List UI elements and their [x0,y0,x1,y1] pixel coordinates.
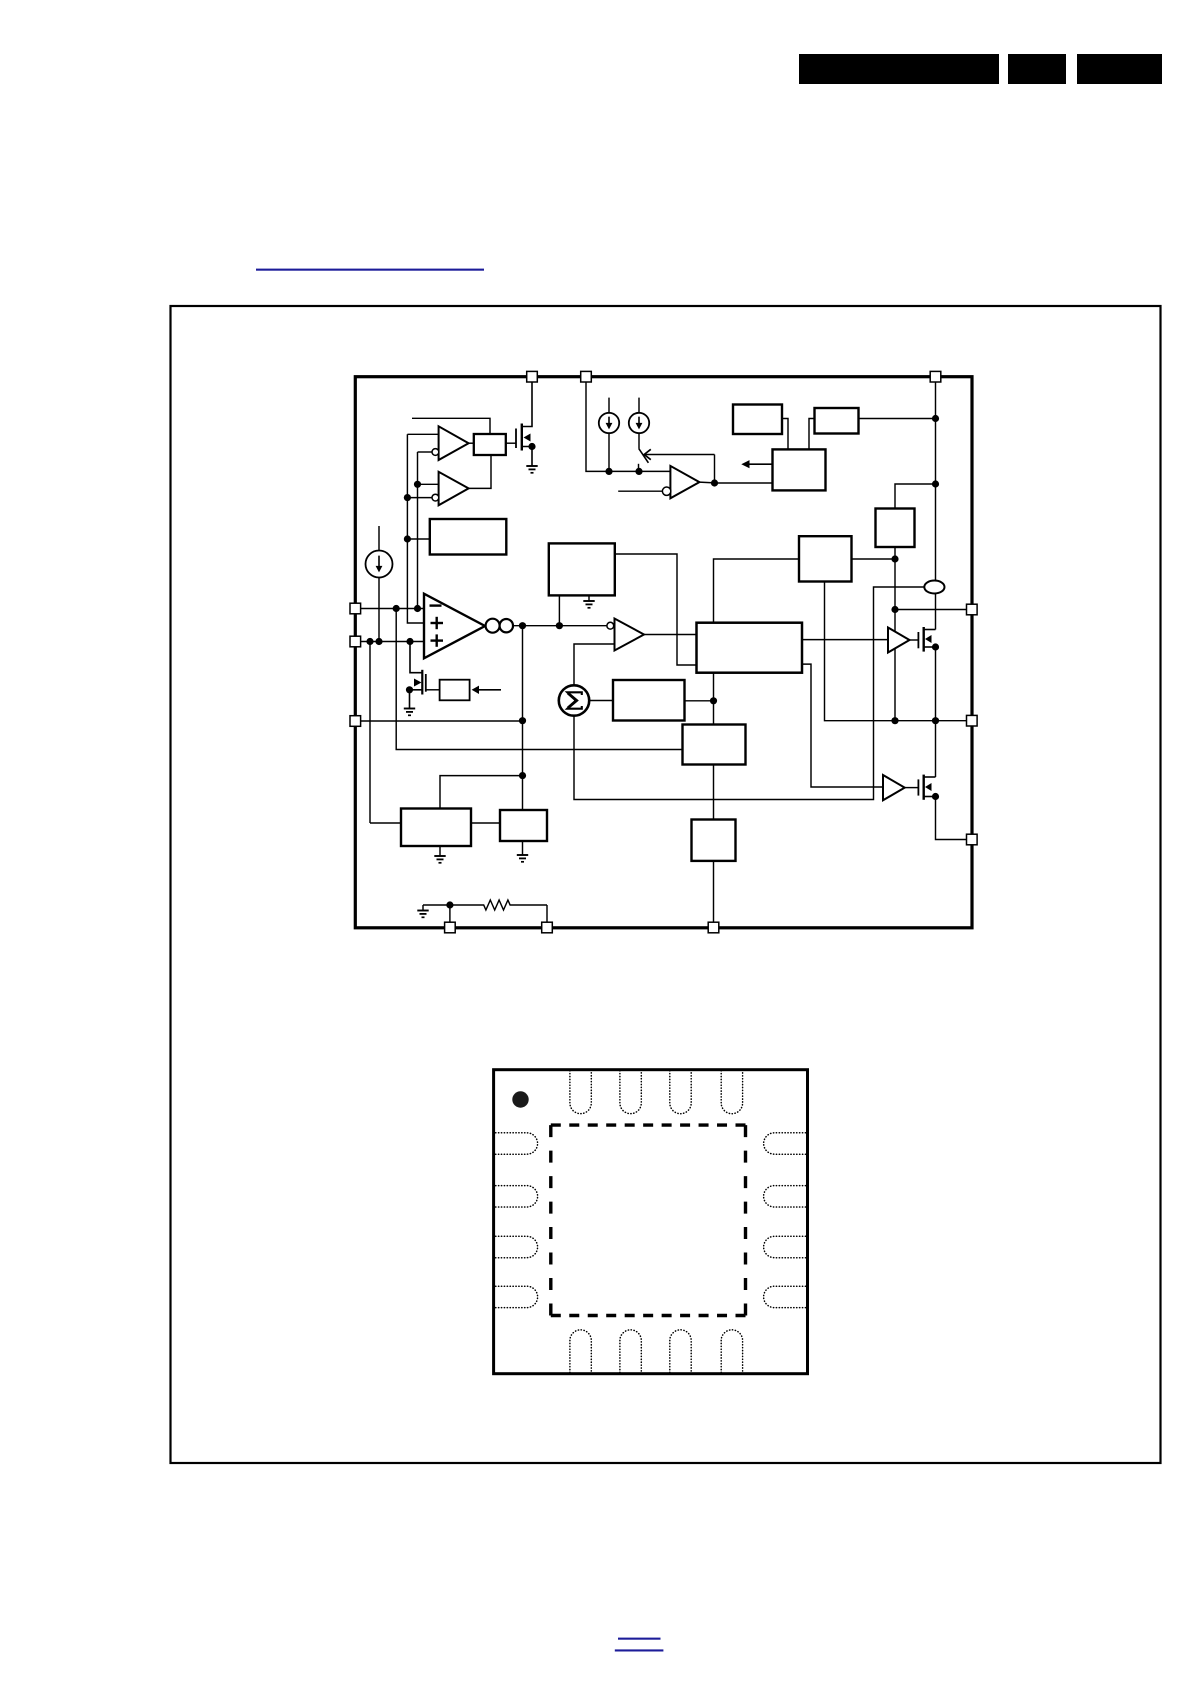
junction - I2 on rail [605,468,612,475]
junction - input rail c [406,638,413,645]
ground (bottom sense) [417,911,428,918]
wire - bottom ground stub to resistor node [423,904,450,906]
junction - soft-start tie [556,622,563,629]
wire - inverting input line from pin FB [360,608,424,610]
resistor R1 [450,900,547,910]
wire - VIN rail from top pin down to Q2 [935,382,937,580]
wire - summer output to slope block [589,700,613,702]
junction - SW rail tie a [891,717,898,724]
wire - PWM logic output to low-side driver [802,664,883,787]
block E (current sense amp) [799,536,852,581]
wire - Q3 source down to PGND pin [936,797,967,840]
junction - SW rail tie b [932,717,939,724]
pin (right 3 PGND) [967,834,978,845]
wire - block D bottom [894,547,896,559]
PWM logic block [697,623,803,673]
package pad left 1 [496,1133,538,1154]
pin (top 2) [581,371,592,382]
IC block-diagram boundary box [355,377,972,928]
PWM comparator U4 [615,619,645,651]
junction - UVLO input [404,535,411,542]
hyperlink underline (footer line 1) [618,1638,661,1640]
QFN package outline [494,1070,808,1374]
wire - SW rail down to Q3 drain [935,721,937,777]
pin (bottom 2) [542,922,553,933]
wire - I1 bottom to op-amp input rail [378,578,380,642]
package pad right 1 [764,1133,806,1154]
wire - vertical from input rail to reference block [369,642,371,824]
exposed pad (dashed) [551,1125,746,1315]
redacted header logo bar [799,54,999,84]
wire - U5 output node up to switch control [714,455,716,484]
transistor Q1 (internal NMOS) [516,382,536,466]
wire - PWM logic output to high-side driver [802,639,888,641]
driver U6 (high-side gate driver) [888,628,910,653]
wire - block D top to VIN rail [895,484,936,509]
wire - summer bottom feedback loop to current sense oval [574,587,924,800]
wire - op-amp output line to comparator bubble [513,625,607,627]
wire - Q2 source down to SW rail [935,647,937,721]
wire - PWM logic top input from current limit block [714,559,800,623]
blanking block [773,449,826,490]
figure outer frame [171,306,1161,1463]
wire - block E bottom down and right to SW pin rail [825,582,967,721]
inverting bubble on PWM comparator [607,622,614,629]
pin (top 1) [527,371,538,382]
wire - U2 bubble input [418,451,432,453]
wire - reference block ground stub [439,846,441,856]
package pad left 2 [496,1186,538,1207]
junction - PWM logic bottom node [710,697,717,704]
wire - pin line (left pin 3) [360,720,523,722]
driver U7 (low-side gate driver) [883,775,905,800]
block A (ramp generator) [733,405,782,435]
wire - branch left into reference block [440,776,523,809]
buffer U5 (mode buffer) [670,466,699,498]
junction - FB line b [414,605,421,612]
pin (top 3 VIN) [930,371,941,382]
block D (current limit comparator) [876,509,915,548]
wire - I2 bottom [608,433,610,471]
pin (right 1 SW sense) [967,604,978,615]
wire - SW sense to right pin [895,609,967,611]
hyperlink underline (footer line 2) [615,1649,664,1651]
package pad bottom 2 [620,1330,641,1373]
wire - driver block to Q1 gate [506,442,516,444]
junction - resistor node [446,901,453,908]
driver block (level shift) [474,434,506,455]
junction - U3 input [414,481,421,488]
junction - U3 bubble input [404,494,411,501]
inverting bubble on U2 [432,449,439,456]
reference block [401,809,471,847]
op-amp U1 plus sign 1 [431,617,444,629]
wire - UVLO input [407,538,429,540]
block B (clock block) [815,408,859,434]
wire - U5 bubble input stub [618,490,662,492]
junction - I3 on rail [635,468,642,475]
wire - vertical net from U2 input to op-amp + input [407,434,424,623]
ground (Q1 source) [526,466,537,473]
wire - M0 gate [426,689,440,691]
junction - branch to reference block [519,772,526,779]
current source I1 [366,551,393,578]
UVLO block [430,519,507,555]
wire - resistor node down to bottom pin [449,905,451,923]
current sense oval [924,581,944,594]
junction - SW sense tie [891,606,898,613]
op-amp U1 (error amplifier) [424,594,485,659]
pin (bottom 3 GND) [708,922,719,933]
wire - stub over buffer U2 into driver block [412,418,490,434]
wire - timer block to bottom pin [713,861,715,923]
redacted header text bar 2 [1008,54,1066,84]
junction - VIN rail b [932,480,939,487]
wire - vertical net from U2 bubble to op-amp - line [417,452,419,609]
wire - slope block output [685,700,714,702]
package pad bottom 3 [670,1330,691,1373]
package pad right 2 [764,1186,806,1207]
junction - input rail b [375,638,382,645]
transistor M0 (discharge NMOS, mirrored) [406,642,426,709]
wire - I1 top stub [378,526,380,551]
buffer U2 (top gate driver input buffer) [439,426,469,460]
wire - FB node down and across to PWM latch block [396,609,682,750]
wire - block B right to VIN rail [859,418,936,420]
package pad top 1 [570,1071,591,1114]
ground (reference block) [434,856,445,863]
oscillator block [500,810,547,841]
current source I2 [599,413,619,433]
inverting bubble on U5 [662,487,670,495]
package pad right 3 [764,1236,806,1257]
junction - COMP node [519,622,526,629]
timer block [692,820,736,861]
junction - U5 output node [711,479,718,486]
package pad bottom 4 [721,1330,742,1373]
inverting bubble on U3 [432,494,439,501]
pin (left 1 FB) [350,603,361,614]
wire - PWM logic bottom to latch block [713,673,715,725]
arrow input into discharge block [472,686,501,694]
junction - VIN rail a [932,415,939,422]
wire - U5 output node to blanking block [715,482,773,484]
output offset circle 1 [486,619,500,633]
discharge control block [440,680,470,701]
wire - switch control from buffer output [645,454,715,456]
arrow output from blanking block [741,460,772,468]
wire - I3 to switch [638,433,640,448]
package pad right 4 [764,1286,806,1307]
transistor Q2 (high-side NMOS) [918,627,939,652]
package pad top 4 [721,1071,742,1114]
wire - U6 output to Q2 gate [910,639,919,641]
op-amp U1 plus sign 2 [431,634,444,646]
hyperlink underline (top) [256,269,484,271]
wire - switch to rail [638,464,640,472]
ground (M0 source) [404,709,415,716]
pin (bottom 1) [445,922,456,933]
junction - COMP pin tie [519,717,526,724]
pin (right 2 SW) [967,715,978,726]
wire - U2 non-inverting input [407,433,438,435]
wire - current limit node down to SW rail [894,559,896,721]
wire - comparator output to PWM logic [644,634,697,636]
package pad left 4 [496,1286,538,1307]
package pad top 3 [670,1071,691,1114]
wire - U2 output to driver block [469,442,474,444]
wire - block B left down into blanking block [809,419,815,450]
transistor Q3 (low-side NMOS) [918,775,939,801]
ground (soft-start block) [583,601,594,608]
wire - U3 output up to driver block [469,455,491,488]
buffer U3 (second input buffer) [439,472,469,506]
latch block [683,725,746,765]
wire - block A output down into blanking block [782,419,788,450]
wire - reference to oscillator interconnect [471,822,500,824]
wire - soft-start ground stub [588,595,590,601]
junction - input rail a [366,638,373,645]
ground (oscillator block) [517,855,528,862]
package pad top 2 [620,1071,641,1114]
output offset circle 2 [500,619,513,632]
wire - top pin 2 down and across (charge current rail) [586,382,670,471]
wire - I3 top stub [638,398,640,413]
package pad bottom 1 [570,1330,591,1373]
wire - ground drop [422,905,424,911]
slope compensation block [613,680,685,721]
current source I3 [629,413,649,433]
wire - resistor right down to bottom pin [546,905,548,923]
wire - reference block left input [370,822,401,824]
summer (sigma) S1 [559,685,589,715]
wire - comparator lower input from summer [574,644,615,685]
soft-start block [549,543,615,595]
switch SW1 control arrowhead [644,449,651,459]
junction - current limit node [891,555,898,562]
pin-1 index dot [512,1091,528,1107]
wire - COMP node vertical down to oscillator block [522,626,524,810]
wire - soft-start output right and down into PWM logic [615,554,697,665]
wire - U7 output to Q3 gate [905,787,919,789]
wire - U5 output [699,481,714,484]
package pad left 3 [496,1236,538,1257]
wire - soft-start block down to COMP line [558,595,560,625]
wire - block E right to current limit node [852,558,896,560]
wire - VIN rail below oval to Q2 drain [935,594,937,630]
wire - U3 bubble input [407,497,432,499]
redacted header text bar 3 [1077,54,1162,84]
pin (left 2) [350,636,361,647]
switch SW1 blade [639,448,649,462]
wire - oscillator ground stub [522,841,524,855]
pin (left 3 COMP) [350,716,361,727]
junction - FB line a [393,605,400,612]
wire - I2 top stub [608,398,610,413]
wire - U3 input [418,483,439,485]
op-amp U1 minus sign [430,604,442,606]
wire - non-inverting input line from pin [360,641,424,643]
wire - latch block down to timer block [713,765,715,820]
